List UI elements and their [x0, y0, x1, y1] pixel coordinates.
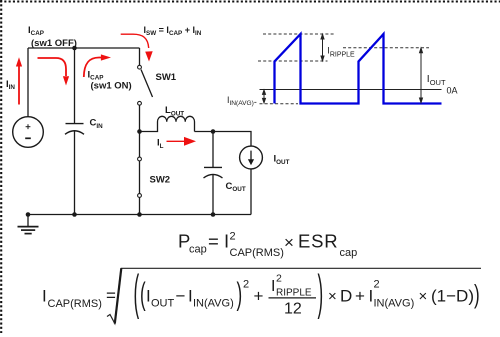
radical sign [107, 268, 481, 323]
svg-text:ISW = ICAP + IIN: ISW = ICAP + IIN [144, 25, 202, 37]
svg-text:+: + [355, 286, 365, 305]
dashed level: minus IIN(AVG) [260, 103, 299, 105]
svg-text:IN(AVG): IN(AVG) [193, 298, 234, 310]
svg-text:×: × [328, 288, 337, 305]
svg-text:IOUT: IOUT [427, 73, 446, 87]
svg-text:ESR: ESR [298, 231, 338, 252]
svg-text:COUT: COUT [226, 181, 246, 193]
wire: CIN to ground rail [74, 131, 76, 215]
ground [18, 215, 39, 234]
inductor L_OUT [140, 116, 195, 131]
waveform 0A axis [260, 89, 442, 91]
svg-text:cap: cap [340, 247, 358, 259]
dashed level: IOUT average [343, 47, 429, 49]
voltage source VIN [13, 117, 44, 148]
wire: LOUT right lead to IOUT source [195, 132, 252, 147]
svg-text:LOUT: LOUT [165, 105, 184, 117]
current arrow I_L [167, 137, 197, 146]
svg-text:(sw1 OFF): (sw1 OFF) [31, 38, 77, 49]
node: VIN/CIN junction [72, 46, 77, 51]
svg-text:IN(AVG): IN(AVG) [374, 298, 415, 310]
svg-text:): ) [318, 265, 324, 320]
svg-text:): ) [474, 279, 480, 309]
svg-text:CIN: CIN [90, 118, 104, 130]
svg-text:=: = [106, 286, 116, 305]
wire: COUT branch top [212, 132, 214, 168]
svg-text:IOUT: IOUT [274, 154, 290, 166]
svg-text:cap: cap [189, 244, 207, 256]
current arrow I_CAP sw1 ON [84, 54, 111, 77]
wire: ground rail [28, 214, 251, 216]
svg-text:2: 2 [374, 279, 380, 291]
capacitor C_IN [65, 124, 84, 135]
svg-text:ICAP: ICAP [28, 25, 44, 37]
wire: top rail to SW1 [139, 48, 141, 65]
wire: SW1 to SW2 to rail [139, 105, 141, 214]
formula I_CAP(RMS) [42, 265, 481, 323]
dashed level: ripple top [263, 33, 336, 35]
svg-text:SW1: SW1 [156, 72, 177, 83]
node: rail at VIN [26, 212, 31, 217]
waveform trace I_CAP [275, 34, 442, 104]
wire: IOUT source to rail [250, 169, 252, 215]
svg-text:2: 2 [230, 231, 236, 243]
node: rail at CIN [72, 212, 77, 217]
capacitor C_OUT [204, 167, 223, 178]
wire: CIN branch [74, 48, 76, 123]
node: rail at SW2 [137, 212, 142, 217]
svg-text:IIN(AVG)-: IIN(AVG)- [227, 95, 257, 107]
svg-text:IL: IL [157, 138, 164, 150]
current arrow I_SW [121, 34, 153, 61]
svg-text:12: 12 [284, 300, 302, 317]
measure arrow I_RIPPLE [321, 34, 324, 60]
wire: top rail [28, 47, 140, 49]
svg-text:I: I [42, 286, 47, 305]
dashed level: ramp start [258, 60, 328, 62]
node: rail at COUT [211, 212, 216, 217]
svg-text:(: ( [134, 265, 140, 320]
measure arrow I_OUT [420, 48, 423, 103]
formula P_cap [178, 231, 357, 259]
svg-text:−: − [176, 286, 186, 305]
svg-text:I: I [271, 278, 275, 295]
current arrow I_IN [16, 57, 22, 104]
switch SW2 [138, 157, 142, 197]
dotted border left [0, 0, 2, 333]
svg-text:OUT: OUT [151, 298, 175, 310]
svg-text:(sw1 ON): (sw1 ON) [91, 80, 132, 91]
node: SW/inductor junction [137, 129, 142, 134]
dotted border top [0, 0, 500, 2]
svg-text:2: 2 [276, 273, 282, 285]
wire: source to top rail [27, 48, 29, 117]
svg-text:2: 2 [243, 279, 249, 291]
svg-text:SW2: SW2 [150, 175, 171, 186]
svg-text:): ) [237, 277, 243, 312]
svg-text:RIPPLE: RIPPLE [276, 287, 312, 298]
svg-text:+: + [254, 286, 264, 305]
svg-text:×: × [419, 288, 428, 305]
svg-text:=: = [208, 231, 219, 252]
svg-text:(1−D): (1−D) [431, 286, 474, 305]
node: inductor/COUT junction [211, 129, 216, 134]
svg-text:D: D [340, 286, 352, 305]
current source I_OUT [240, 146, 263, 169]
svg-text:0A: 0A [447, 85, 458, 95]
svg-text:IIN: IIN [6, 79, 15, 91]
svg-text:CAP(RMS): CAP(RMS) [48, 298, 102, 310]
switch SW1 [138, 65, 153, 105]
svg-text:I: I [224, 231, 229, 252]
svg-text:×: × [284, 233, 294, 252]
svg-text:CAP(RMS): CAP(RMS) [230, 247, 284, 259]
measure arrow I_IN(AVG) [263, 90, 266, 103]
wire: COUT branch bottom [212, 174, 214, 215]
current arrow I_CAP sw1 OFF [38, 58, 70, 86]
